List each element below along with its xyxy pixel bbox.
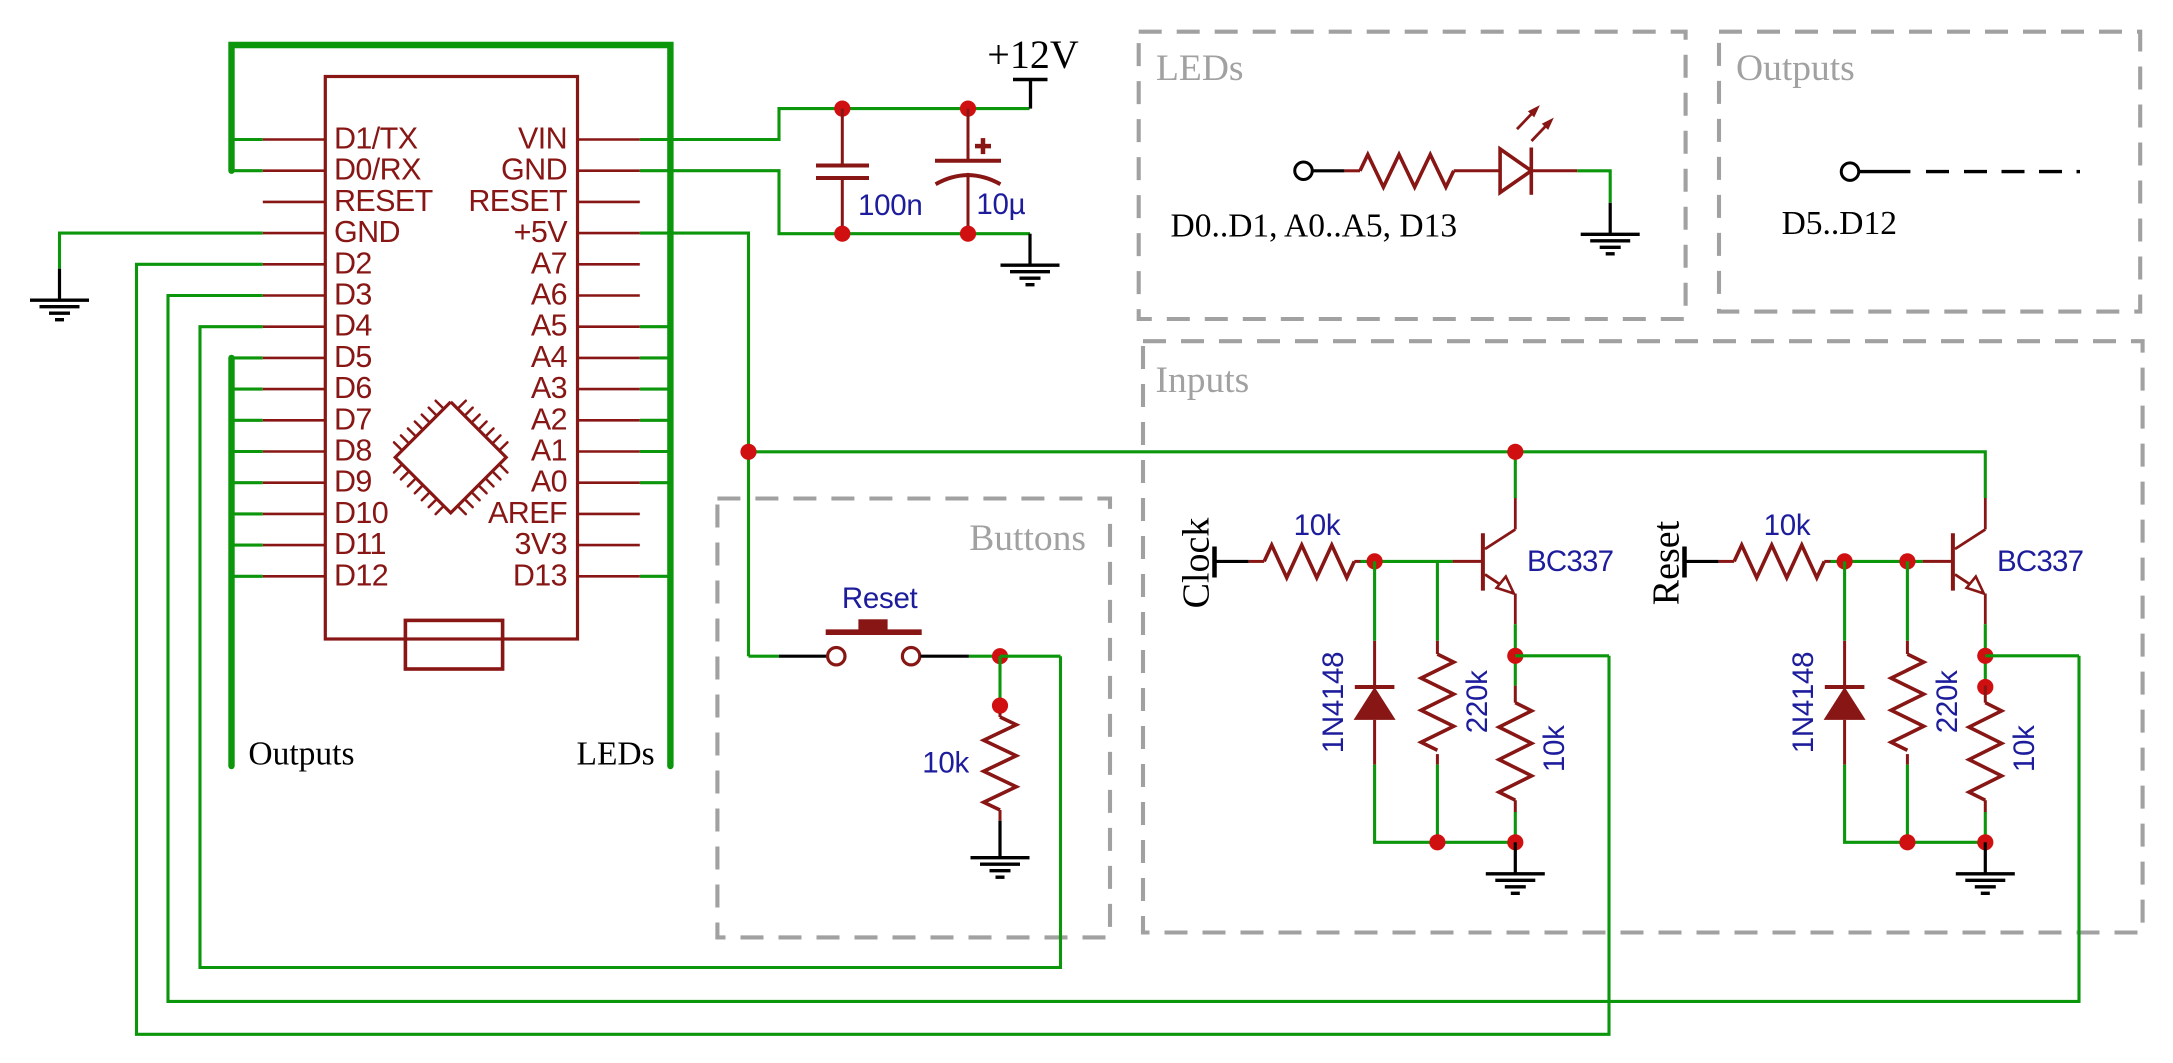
- wire emitter Reset: [1984, 624, 1987, 685]
- pin VIN right: [518, 122, 640, 156]
- wire output tap Reset: [1985, 654, 2079, 657]
- svg-text:1N4148: 1N4148: [1787, 652, 1820, 754]
- svg-text:10k: 10k: [1764, 509, 1811, 542]
- pin D11 left: [263, 527, 386, 561]
- mcu crystal rectangle: [405, 620, 502, 669]
- mcu U1 Arduino Nano body: [325, 77, 577, 640]
- svg-text:D3: D3: [334, 278, 372, 312]
- svg-text:10k: 10k: [922, 747, 969, 780]
- wire 10k bottom Clock: [1514, 812, 1517, 842]
- wire VIN to +12V rail: [640, 109, 1030, 140]
- resistor 220k Reset: [1891, 641, 1924, 765]
- wire D1/TX to bus: [232, 138, 263, 141]
- wire +5V rail to inputs: [749, 452, 1986, 498]
- pin A6 right: [531, 278, 640, 312]
- wire 220k top Clock: [1436, 561, 1439, 640]
- region box Buttons: [717, 499, 1110, 938]
- ground symbol button: [971, 821, 1030, 878]
- wire button output to D4 net: [1000, 655, 1061, 658]
- label button 10k: [922, 747, 969, 780]
- pin base lead Q Clock: [1453, 560, 1482, 563]
- svg-text:RESET: RESET: [468, 184, 567, 218]
- svg-text:3V3: 3V3: [515, 527, 567, 561]
- terminal circle LED input: [1295, 162, 1313, 180]
- svg-text:D13: D13: [513, 558, 567, 592]
- label 1N4148 Clock: [1317, 652, 1350, 754]
- bus wire Outputs net: [228, 358, 234, 766]
- terminal circle output: [1841, 163, 1859, 181]
- svg-text:A6: A6: [531, 278, 567, 312]
- svg-text:1N4148: 1N4148: [1317, 652, 1350, 754]
- label 220k Reset: [1931, 670, 1964, 733]
- wire 220k bottom Clock: [1436, 765, 1439, 843]
- pin D9 left: [263, 465, 372, 499]
- label base 10k Clock: [1294, 509, 1341, 542]
- wire LED cathode to ground: [1577, 171, 1610, 203]
- pin D0/RX left: [263, 153, 421, 187]
- led D1 symbol: [1500, 148, 1577, 195]
- svg-text:220k: 220k: [1931, 670, 1964, 733]
- svg-text:AREF: AREF: [488, 496, 567, 530]
- wire output tap Clock: [1515, 654, 1609, 657]
- label C2 value 10u: [976, 188, 1025, 221]
- wire 10k bottom Reset: [1984, 812, 1987, 842]
- wire diode branch Clock: [1373, 561, 1376, 640]
- svg-text:LEDs: LEDs: [577, 736, 655, 773]
- pin D10 left: [263, 496, 388, 530]
- pin D4 left: [263, 309, 373, 343]
- svg-text:D5..D12: D5..D12: [1782, 205, 1897, 242]
- label C1 value 100n: [858, 189, 922, 222]
- pin base lead Q Reset: [1923, 560, 1952, 563]
- svg-text:+12V: +12V: [987, 32, 1079, 77]
- svg-text:100n: 100n: [858, 189, 922, 222]
- label output nets: [1782, 205, 1897, 242]
- svg-text:RESET: RESET: [334, 184, 433, 218]
- pin A3 right: [531, 371, 640, 405]
- pin A0 right: [531, 465, 640, 499]
- svg-text:D12: D12: [334, 558, 388, 592]
- junction emitter Clock: [1507, 648, 1523, 664]
- wire D2 net: [137, 264, 1610, 1034]
- svg-text:GND: GND: [501, 153, 567, 187]
- junction ground Clock: [1507, 834, 1523, 850]
- resistor base 10k Clock: [1249, 545, 1361, 578]
- pin +5V right: [514, 215, 640, 249]
- wire 10k emitter top Clock: [1514, 686, 1517, 703]
- label Outputs bus: [248, 736, 354, 773]
- svg-text:VIN: VIN: [518, 122, 567, 156]
- region title Inputs: [1156, 360, 1250, 401]
- label BC337 Reset: [1997, 545, 2083, 578]
- svg-text:D4: D4: [334, 309, 372, 343]
- wire A5 to LED bus: [640, 325, 671, 328]
- wire A2 to LED bus: [640, 419, 671, 422]
- terminal Reset: [1685, 547, 1719, 578]
- pin A4 right: [531, 340, 640, 374]
- svg-text:D1/TX: D1/TX: [334, 122, 418, 156]
- wire base node Clock: [1361, 560, 1453, 563]
- bus wire LED net top rail: [232, 45, 671, 766]
- wire base node Reset: [1831, 560, 1923, 563]
- ground symbol below caps: [1001, 234, 1060, 285]
- wire A3 to LED bus: [640, 388, 671, 391]
- svg-text:D5: D5: [334, 340, 372, 374]
- junction base Reset: [1837, 553, 1853, 569]
- wire D13 to LED bus: [640, 575, 671, 578]
- svg-text:D6: D6: [334, 371, 372, 405]
- terminal Clock: [1215, 547, 1249, 578]
- transistor Q Reset BC337: [1953, 498, 1985, 624]
- svg-text:A2: A2: [531, 402, 567, 436]
- resistor emitter 10k Reset: [1969, 703, 2002, 812]
- svg-text:BC337: BC337: [1997, 545, 2083, 578]
- pin D3 left: [263, 278, 372, 312]
- svg-text:+5V: +5V: [514, 215, 569, 249]
- pin RESET right: [468, 184, 639, 218]
- wire GND right to bottom rail: [640, 171, 1030, 234]
- resistor base 10k Reset: [1719, 545, 1831, 578]
- svg-text:D8: D8: [334, 434, 372, 468]
- wire diode bottom Reset: [1845, 765, 1986, 843]
- resistor 220k Clock: [1421, 641, 1454, 765]
- region box Outputs: [1719, 32, 2140, 312]
- junction cap C2 top: [960, 101, 976, 117]
- junction +5V rail collector Q1: [1507, 444, 1523, 460]
- junction cap C1 top: [834, 101, 850, 117]
- label LED nets: [1171, 208, 1458, 245]
- wire D4 net: [200, 327, 1061, 968]
- wire diode bottom Clock: [1375, 765, 1516, 843]
- region title LEDs: [1156, 48, 1244, 89]
- junction button resistor top: [992, 698, 1008, 714]
- power symbol +12V: [987, 32, 1079, 109]
- svg-text:LEDs: LEDs: [1156, 48, 1244, 89]
- ground symbol far left: [30, 269, 89, 320]
- svg-text:D10: D10: [334, 496, 388, 530]
- svg-text:10k: 10k: [1538, 725, 1571, 772]
- svg-text:D9: D9: [334, 465, 372, 499]
- diode 1N4148 Reset: [1824, 641, 1866, 765]
- label button Reset: [842, 582, 918, 615]
- wire A1 to LED bus: [640, 450, 671, 453]
- region title Buttons: [969, 518, 1086, 559]
- wire diode branch Reset: [1843, 561, 1846, 640]
- pin D12 left: [263, 558, 388, 592]
- wire D10 to Outputs bus: [232, 512, 263, 515]
- label base 10k Reset: [1764, 509, 1811, 542]
- led D1 emission arrows: [1517, 105, 1554, 141]
- resistor R pulldown 10k: [984, 713, 1017, 821]
- svg-text:A5: A5: [531, 309, 567, 343]
- pin 3V3 right: [515, 527, 640, 561]
- pin D6 left: [263, 371, 372, 405]
- wire +5V net: [640, 233, 749, 656]
- pin D13 right: [513, 558, 640, 592]
- wire output dashed: [1926, 170, 2080, 173]
- svg-text:Buttons: Buttons: [969, 518, 1086, 559]
- svg-text:A4: A4: [531, 340, 568, 374]
- label 1N4148 Reset: [1787, 652, 1820, 754]
- diode 1N4148 Clock: [1354, 641, 1396, 765]
- svg-text:BC337: BC337: [1527, 545, 1613, 578]
- wire collector tap Q1: [1514, 452, 1517, 498]
- pin D2 left: [263, 246, 372, 280]
- junction button output: [992, 648, 1008, 664]
- svg-text:A3: A3: [531, 371, 567, 405]
- wire GND pin to ground: [60, 233, 263, 269]
- pin D5 left: [263, 340, 372, 374]
- junction ground Reset: [1977, 834, 1993, 850]
- label emitter 10k Clock: [1538, 725, 1571, 772]
- junction 220k bottom Clock: [1429, 834, 1445, 850]
- wire D0/RX to bus: [232, 169, 263, 172]
- resistor emitter 10k Clock: [1499, 703, 1532, 812]
- ground symbol LEDs box: [1581, 203, 1640, 254]
- wire button pulldown: [998, 656, 1001, 713]
- label BC337 Clock: [1527, 545, 1613, 578]
- svg-text:Outputs: Outputs: [1736, 48, 1855, 89]
- svg-text:D0/RX: D0/RX: [334, 153, 421, 187]
- pin GND right: [501, 153, 640, 187]
- mcu chip glyph: [394, 401, 507, 514]
- svg-text:D7: D7: [334, 402, 372, 436]
- region title Outputs: [1736, 48, 1855, 89]
- svg-text:D0..D1, A0..A5, D13: D0..D1, A0..A5, D13: [1171, 208, 1458, 245]
- region box Inputs: [1143, 341, 2143, 932]
- junction 10k top Reset: [1977, 679, 1993, 695]
- label LEDs bus: [577, 736, 655, 773]
- pin GND left: [263, 215, 400, 249]
- wire D6 to Outputs bus: [232, 388, 263, 391]
- pin D7 left: [263, 402, 372, 436]
- wire D8 to Outputs bus: [232, 450, 263, 453]
- svg-text:D2: D2: [334, 246, 372, 280]
- ground symbol Reset cell: [1956, 842, 2015, 893]
- wire output solid: [1859, 170, 1911, 173]
- svg-text:10k: 10k: [1294, 509, 1341, 542]
- svg-text:D11: D11: [334, 527, 386, 561]
- resistor R LED: [1344, 155, 1500, 188]
- svg-text:Reset: Reset: [842, 582, 918, 615]
- region box LEDs: [1139, 32, 1686, 319]
- pin D1/TX left: [263, 122, 418, 156]
- pin A2 right: [531, 402, 640, 436]
- pin A7 right: [531, 246, 640, 280]
- pin D8 left: [263, 434, 372, 468]
- svg-text:10µ: 10µ: [976, 188, 1025, 221]
- svg-text:220k: 220k: [1461, 670, 1494, 733]
- junction cap C1 bottom: [834, 226, 850, 242]
- wire D7 to Outputs bus: [232, 419, 263, 422]
- wire 220k bottom Reset: [1906, 765, 1909, 843]
- svg-text:Clock: Clock: [1175, 518, 1217, 609]
- junction emitter Reset: [1977, 648, 1993, 664]
- ground symbol Clock cell: [1486, 842, 1545, 893]
- svg-text:A1: A1: [531, 434, 567, 468]
- label terminal Reset: [1645, 520, 1687, 605]
- wire button right lead: [921, 655, 1001, 658]
- svg-text:A7: A7: [531, 246, 567, 280]
- junction cap C2 bottom: [960, 226, 976, 242]
- wire D5 to Outputs bus: [232, 356, 263, 359]
- wire 10k emitter top Reset: [1984, 686, 1987, 703]
- wire button left lead: [749, 655, 827, 658]
- pin A5 right: [531, 309, 640, 343]
- wire D3 net: [168, 296, 2079, 1002]
- svg-text:A0: A0: [531, 465, 567, 499]
- label 220k Clock: [1461, 670, 1494, 733]
- svg-text:Reset: Reset: [1645, 520, 1687, 605]
- junction 220k bottom Reset: [1899, 834, 1915, 850]
- svg-text:Outputs: Outputs: [248, 736, 354, 773]
- capacitor C1 100n: [816, 109, 869, 234]
- label terminal Clock: [1175, 518, 1217, 609]
- button SW1 Reset: [826, 620, 922, 665]
- svg-text:GND: GND: [334, 215, 400, 249]
- transistor Q Clock BC337: [1483, 498, 1515, 624]
- pin AREF right: [488, 496, 640, 530]
- svg-text:Inputs: Inputs: [1156, 360, 1250, 401]
- capacitor C2 10u polarized: [935, 109, 1001, 234]
- pin A1 right: [531, 434, 640, 468]
- wire A4 to LED bus: [640, 356, 671, 359]
- wire emitter Clock: [1514, 624, 1517, 685]
- wire 220k top Reset: [1906, 561, 1909, 640]
- pin RESET left: [263, 184, 433, 218]
- wire D9 to Outputs bus: [232, 481, 263, 484]
- junction base Clock: [1367, 553, 1383, 569]
- svg-text:10k: 10k: [2008, 725, 2041, 772]
- junction 220k top Reset: [1899, 553, 1915, 569]
- junction +5V rail to button: [740, 444, 756, 460]
- label emitter 10k Reset: [2008, 725, 2041, 772]
- wire LED terminal lead: [1312, 169, 1344, 172]
- wire D12 to Outputs bus: [232, 575, 263, 578]
- wire A0 to LED bus: [640, 481, 671, 484]
- wire D11 to Outputs bus: [232, 544, 263, 547]
